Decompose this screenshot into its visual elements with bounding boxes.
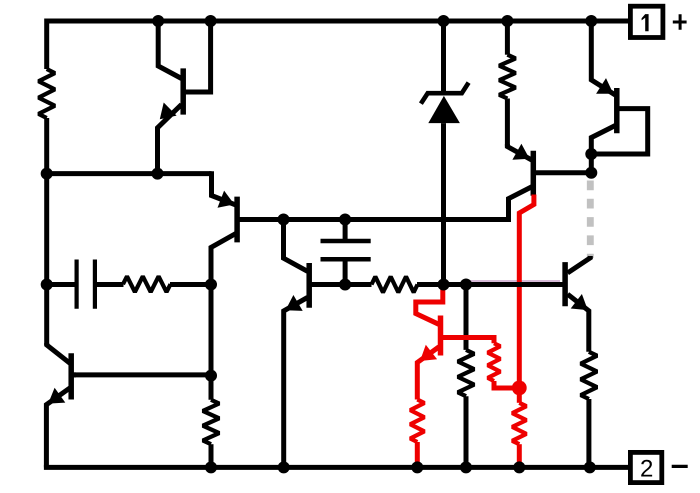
wire node-B horizontal (y=219.5) — [240, 217, 509, 222]
resistor R2 bottom lead — [505, 99, 510, 147]
wire C2 branch left — [47, 282, 75, 287]
transistor Q1 emitter arrow — [160, 103, 177, 120]
resistor R5 — [203, 400, 219, 444]
transistor Q6 emitter — [568, 294, 589, 352]
transistor Q4 base — [533, 170, 591, 175]
transistor Q7 emitter arrow — [48, 388, 65, 404]
wire R3 to node x211 — [170, 282, 211, 287]
transistor Q3 emitter arrow — [286, 295, 303, 311]
wire node dots link — [589, 154, 594, 173]
zener diode D1 top lead — [441, 21, 446, 93]
transistor Q4 emitter — [507, 144, 531, 160]
capacitor C2 left plate — [74, 260, 78, 309]
wire top rail — [47, 21, 631, 69]
node junction dot 6 — [41, 168, 53, 180]
transistor Q3 emitter — [284, 297, 308, 467]
wire node-C horizontal left (Q3 base to R4) — [312, 282, 372, 287]
wire x211 below R5 — [209, 444, 214, 467]
resistor R10 (red) — [512, 403, 526, 444]
transistor Q2 base lead — [237, 217, 242, 222]
node junction dot 13 — [438, 279, 450, 291]
node junction dot 19 — [278, 461, 290, 473]
node junction dot 7 — [152, 168, 164, 180]
transistor Q7 collector — [47, 343, 70, 363]
node junction dot 22 — [513, 461, 525, 473]
transistor Q6 collector — [568, 256, 591, 273]
transistor Q6 bar — [562, 262, 568, 306]
transistor Q7 emitter — [46, 388, 70, 468]
transistor Q8 emitter (red) — [417, 347, 439, 400]
svg-text:2: 2 — [640, 456, 653, 483]
transistor Q1 base — [184, 21, 211, 92]
node junction dot 16 — [585, 167, 597, 179]
resistor R6 top lead — [464, 285, 469, 350]
transistor Q5 bar — [614, 88, 620, 133]
transistor Q8 collector wire (red) — [416, 286, 443, 324]
transistor Q7 base lead — [71, 372, 76, 377]
transistor Q2 emitter — [212, 171, 237, 205]
resistor R10 bottom lead (red) — [517, 444, 522, 467]
wire node-C overcross — [510, 282, 530, 287]
node junction dot 23 — [584, 461, 596, 473]
wire left rail lower — [44, 118, 49, 345]
transistor Q5 emitter — [591, 21, 615, 95]
terminal 1 plus sign — [673, 14, 687, 30]
resistor R4 — [372, 277, 418, 293]
node junction dot 15 — [585, 148, 597, 160]
node junction dot 11 — [205, 279, 217, 291]
node junction dot 3 — [438, 15, 450, 27]
wire node-C horizontal right (R4 to Q6 base) — [417, 282, 563, 287]
transistor Q8 emitter arrow (red) — [420, 345, 437, 361]
wire purple trace artifact — [467, 280, 560, 282]
capacitor C1 top lead — [343, 220, 348, 242]
resistor R6 — [458, 350, 474, 396]
zener diode D1 bottom lead — [441, 123, 446, 284]
resistor R2 — [499, 55, 515, 99]
transistor Q4 bar — [531, 151, 537, 196]
transistor Q5 collector — [591, 126, 615, 155]
node junction dot 8 — [278, 214, 290, 226]
wire red dot to R10 (red) — [517, 388, 522, 403]
resistor R7 bottom lead — [586, 399, 591, 467]
resistor R2 top lead — [505, 21, 510, 55]
node junction dot 10 — [41, 279, 53, 291]
transistor Q8 bar (red) — [438, 316, 444, 356]
zener diode D1 anode triangle — [428, 96, 460, 123]
resistor R7 — [581, 352, 597, 399]
zener diode D1 cathode bar with hooks — [421, 83, 469, 104]
node junction dot 4 — [501, 15, 513, 27]
capacitor C1 top plate — [321, 239, 371, 244]
transistor Q2 emitter arrow — [218, 191, 235, 208]
resistor R1 — [39, 69, 55, 118]
transistor Q4 collector — [509, 187, 533, 223]
transistor Q2 bar — [234, 197, 240, 243]
wire node-A horizontal (y=173.6) — [44, 171, 211, 176]
capacitor C1 bottom plate — [321, 257, 371, 262]
node junction dot 9 — [339, 214, 351, 226]
transistor Q4 emitter arrow — [512, 144, 529, 160]
node junction dot 21 — [460, 461, 472, 473]
transistor Q7 bar — [68, 353, 74, 399]
wire bottom rail — [44, 465, 631, 470]
node junction dot 2 — [205, 15, 217, 27]
node junction dot 14 — [460, 279, 472, 291]
transistor Q1 bar — [180, 68, 186, 114]
node junction dot 1 — [152, 15, 164, 27]
capacitor C2 right plate — [93, 260, 97, 309]
node junction dot 17 — [205, 370, 217, 382]
terminal 1 box — [630, 6, 663, 37]
resistor R9 (red) — [410, 400, 424, 443]
transistor Q5 base loop — [591, 109, 647, 154]
resistor R8 (red) — [488, 343, 501, 381]
wire R8 to red node (red) — [494, 381, 513, 388]
node red junction dot — [512, 381, 527, 396]
node junction dot 12 — [339, 279, 351, 291]
transistor Q1 collector — [158, 21, 181, 79]
wire C2 to R3 — [97, 282, 124, 287]
transistor Q3 collector — [284, 220, 308, 272]
transistor Q6 base lead — [563, 282, 567, 287]
transistor Q8 base lead (red) — [441, 338, 494, 344]
node junction dot 20 — [411, 461, 423, 473]
transistor Q1 emitter — [158, 105, 182, 174]
transistor Q6 emitter arrow — [571, 294, 588, 310]
transistor Q3 bar — [306, 263, 312, 308]
resistor R6 bottom lead — [464, 396, 469, 467]
terminal 1 label glyph — [642, 14, 649, 31]
node junction dot 18 — [205, 461, 217, 473]
wire dashed gray link — [587, 181, 594, 259]
wire Q2 collector vertical x211 — [211, 234, 236, 400]
terminal 2 box — [630, 452, 661, 482]
capacitor C1 bottom lead — [343, 259, 348, 284]
transistor Q5 emitter arrow — [596, 78, 613, 94]
node junction dot 5 — [585, 15, 597, 27]
resistor R9 bottom lead (red) — [415, 442, 420, 467]
wire red sense tap from Q4 collector — [519, 195, 534, 388]
wire Q7 base — [72, 372, 212, 377]
terminal 2 minus sign — [672, 465, 688, 468]
resistor R3 — [123, 276, 171, 292]
